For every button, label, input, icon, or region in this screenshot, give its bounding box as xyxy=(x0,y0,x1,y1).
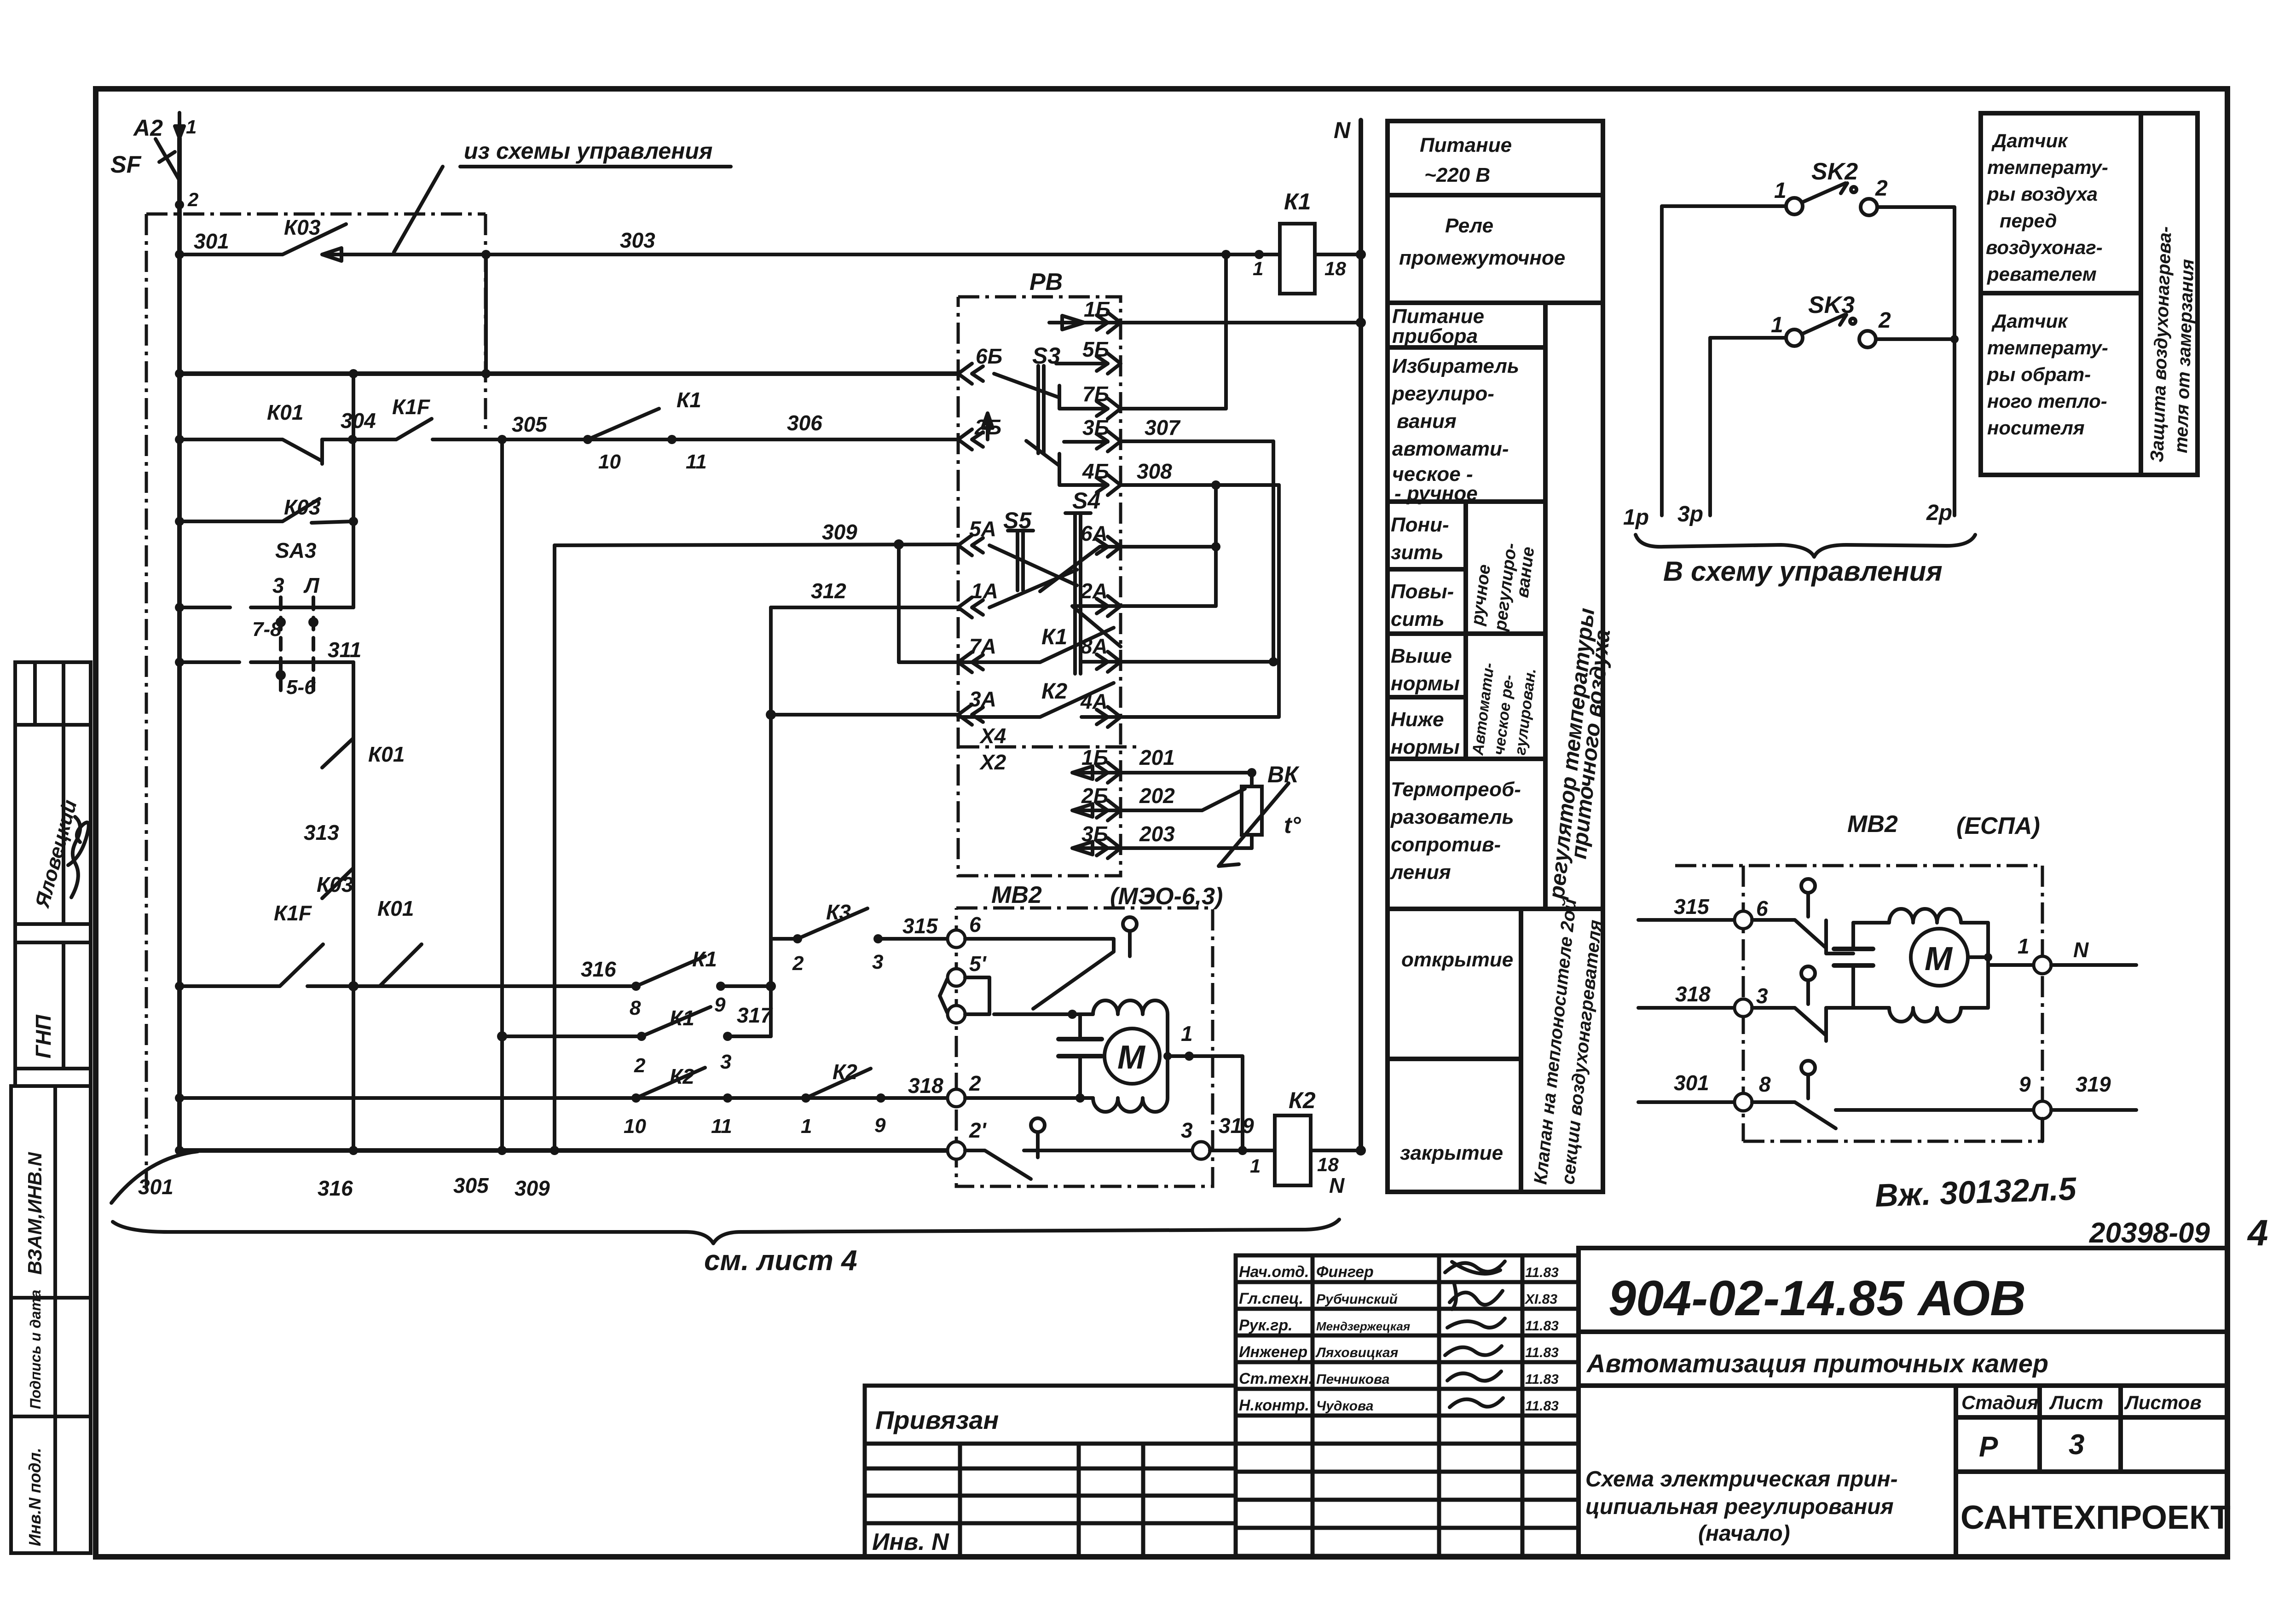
svg-text:11.83: 11.83 xyxy=(1525,1345,1559,1360)
svg-text:М: М xyxy=(1925,941,1953,977)
svg-text:САНТЕХПРОЕКТ: САНТЕХПРОЕКТ xyxy=(1960,1499,2231,1536)
svg-text:1р: 1р xyxy=(1623,505,1649,530)
svg-text:SK2: SK2 xyxy=(1811,158,1858,185)
svg-text:Х2: Х2 xyxy=(979,750,1006,774)
svg-text:11.83: 11.83 xyxy=(1525,1399,1559,1414)
left inventory strip boxes xyxy=(11,662,91,1553)
svg-text:2Б: 2Б xyxy=(1081,784,1108,808)
svg-text:309: 309 xyxy=(822,520,857,544)
svg-text:Лист: Лист xyxy=(2049,1392,2103,1413)
svg-text:Датчик: Датчик xyxy=(1991,310,2068,332)
svg-text:3: 3 xyxy=(272,573,284,597)
svg-text:сить: сить xyxy=(1391,608,1445,630)
svg-text:К3: К3 xyxy=(826,900,851,924)
svg-text:ципиальная регулирования: ципиальная регулирования xyxy=(1585,1495,1894,1519)
main vertical bus V1 xyxy=(177,138,182,1150)
title block outer xyxy=(1579,1248,2227,1557)
svg-text:К2: К2 xyxy=(1289,1087,1316,1113)
RV controller dashed box xyxy=(958,297,1121,876)
svg-text:МВ2: МВ2 xyxy=(991,882,1042,908)
svg-text:S4: S4 xyxy=(1072,488,1100,514)
svg-text:6Б: 6Б xyxy=(976,344,1002,368)
svg-text:3: 3 xyxy=(2069,1429,2084,1461)
svg-text:305: 305 xyxy=(453,1173,489,1197)
5' loop xyxy=(940,977,989,1014)
svg-text:10: 10 xyxy=(598,451,621,473)
svg-text:9: 9 xyxy=(714,994,726,1016)
svg-text:6: 6 xyxy=(1756,896,1768,920)
svg-text:Питание: Питание xyxy=(1420,134,1512,156)
svg-text:2: 2 xyxy=(969,1071,981,1095)
svg-text:нормы: нормы xyxy=(1391,672,1460,695)
svg-text:регулиро-: регулиро- xyxy=(1392,382,1494,405)
svg-text:203: 203 xyxy=(1139,822,1175,846)
terminal rows 201/202/203 xyxy=(1072,766,1252,779)
svg-text:Нач.отд.: Нач.отд. xyxy=(1239,1263,1309,1281)
chain x768: K03 contact wire y1133 xyxy=(352,374,355,607)
svg-text:температу-: температу- xyxy=(1987,337,2108,358)
svg-text:3Б: 3Б xyxy=(1081,822,1108,846)
svg-text:315: 315 xyxy=(1674,895,1710,919)
svg-text:313: 313 xyxy=(304,821,339,844)
svg-text:Чудкова: Чудкова xyxy=(1316,1399,1373,1414)
svg-text:315: 315 xyxy=(902,914,938,938)
svg-text:201: 201 xyxy=(1139,746,1175,769)
svg-text:Л: Л xyxy=(303,573,320,597)
svg-text:307: 307 xyxy=(1145,416,1181,439)
bottom bus 301 (y2500) xyxy=(111,1151,198,1203)
svg-text:1: 1 xyxy=(1253,258,1263,279)
svg-text:Вж. 30132л.5: Вж. 30132л.5 xyxy=(1874,1171,2077,1214)
svg-text:SF: SF xyxy=(110,151,142,178)
top contact from 6 xyxy=(965,939,1114,1009)
svg-text:ВК: ВК xyxy=(1267,762,1300,787)
svg-text:N: N xyxy=(1329,1173,1345,1197)
svg-text:304: 304 xyxy=(341,409,376,433)
svg-text:В схему управления: В схему управления xyxy=(1663,556,1943,587)
svg-text:316: 316 xyxy=(318,1176,353,1200)
svg-text:301: 301 xyxy=(138,1175,173,1199)
svg-text:301: 301 xyxy=(1674,1071,1709,1095)
svg-text:t°: t° xyxy=(1284,812,1301,838)
capacitor xyxy=(1851,923,1855,1008)
svg-text:ры обрат-: ры обрат- xyxy=(1987,364,2091,385)
svg-text:Схема электрическая прин-: Схема электрическая прин- xyxy=(1585,1467,1898,1491)
SA3 selector rows xyxy=(175,603,184,612)
svg-text:ВЗАМ,ИНВ.N: ВЗАМ,ИНВ.N xyxy=(24,1151,46,1275)
wire 318 (y2386) xyxy=(175,1093,184,1103)
svg-text:3: 3 xyxy=(872,951,883,973)
dash-dot boundary V2 xyxy=(146,214,486,1190)
BK thermal resistor xyxy=(1247,768,1256,777)
svg-text:20398-09: 20398-09 xyxy=(2089,1217,2210,1249)
svg-text:319: 319 xyxy=(2076,1072,2111,1096)
svg-text:301: 301 xyxy=(194,229,229,253)
svg-text:Датчик: Датчик xyxy=(1991,130,2068,151)
svg-text:Гл.спец.: Гл.спец. xyxy=(1239,1290,1303,1307)
svg-text:7Б: 7Б xyxy=(1082,382,1109,406)
bus H3 (y955) 304/305/306 xyxy=(175,435,184,444)
middle legend table xyxy=(1388,121,1603,1192)
svg-text:2: 2 xyxy=(634,1054,646,1077)
wire 312 / vertical 1675 xyxy=(771,606,958,609)
svg-text:Ст.техн.: Ст.техн. xyxy=(1239,1370,1313,1387)
svg-text:4Б: 4Б xyxy=(1082,459,1109,483)
svg-text:Печникова: Печникова xyxy=(1316,1372,1389,1387)
svg-text:8: 8 xyxy=(630,997,641,1019)
svg-text:1: 1 xyxy=(186,116,197,138)
wire 317 (y2252) xyxy=(497,1031,507,1041)
privyazan box xyxy=(865,1386,1236,1557)
svg-text:Ниже: Ниже xyxy=(1391,708,1444,731)
wire 315 with K3 xyxy=(771,937,798,941)
svg-text:(ЕСПА): (ЕСПА) xyxy=(1956,813,2040,839)
svg-text:308: 308 xyxy=(1137,459,1172,483)
svg-text:К01: К01 xyxy=(368,742,405,766)
svg-text:(МЭО-6,3): (МЭО-6,3) xyxy=(1110,883,1223,910)
svg-text:309: 309 xyxy=(515,1176,550,1200)
svg-text:МВ2: МВ2 xyxy=(1847,811,1898,838)
wire 301 (y553) with K03 contact xyxy=(175,250,184,259)
svg-text:N: N xyxy=(2073,938,2089,962)
svg-text:2': 2' xyxy=(969,1118,987,1142)
svg-text:Инв. N: Инв. N xyxy=(872,1529,949,1555)
terminal 3 and K2 relay xyxy=(1192,1142,1210,1159)
svg-text:Повы-: Повы- xyxy=(1391,580,1454,603)
svg-text:из схемы управления: из схемы управления xyxy=(464,138,712,164)
svg-text:2А: 2А xyxy=(1080,579,1108,603)
svg-text:11: 11 xyxy=(686,451,707,473)
7A wire from 1953 xyxy=(899,660,958,664)
svg-text:6А: 6А xyxy=(1081,521,1108,545)
svg-text:К01: К01 xyxy=(267,400,303,424)
svg-text:8: 8 xyxy=(1759,1072,1771,1096)
svg-text:К1: К1 xyxy=(692,947,717,971)
svg-text:К2: К2 xyxy=(1041,679,1068,704)
svg-text:3: 3 xyxy=(720,1051,731,1073)
svg-text:11.83: 11.83 xyxy=(1525,1372,1559,1387)
svg-text:ного тепло-: ного тепло- xyxy=(1987,390,2107,412)
svg-text:303: 303 xyxy=(620,228,655,252)
3A wire xyxy=(766,710,776,720)
svg-text:11.83: 11.83 xyxy=(1525,1318,1559,1334)
svg-text:Привязан: Привязан xyxy=(875,1405,999,1434)
svg-text:18: 18 xyxy=(1317,1154,1339,1175)
svg-text:перед: перед xyxy=(2000,210,2057,231)
svg-text:7-8: 7-8 xyxy=(252,618,282,641)
svg-text:5Б: 5Б xyxy=(1082,337,1109,361)
chain x768 down with K01, 313, K03 xyxy=(352,662,355,1150)
svg-text:Мендзержецкая: Мендзержецкая xyxy=(1316,1319,1410,1333)
svg-text:4: 4 xyxy=(2247,1212,2268,1253)
svg-text:Фингер: Фингер xyxy=(1316,1263,1374,1281)
signatures table xyxy=(1236,1255,1579,1556)
svg-text:ры воздуха: ры воздуха xyxy=(1987,183,2098,205)
svg-text:РВ: РВ xyxy=(1029,269,1063,295)
left-edge inner chevrons xyxy=(972,366,983,722)
svg-text:К2: К2 xyxy=(833,1060,857,1084)
svg-text:открытие: открытие xyxy=(1401,948,1513,971)
svg-text:Питание: Питание xyxy=(1392,305,1484,328)
svg-text:К1: К1 xyxy=(677,388,701,412)
svg-text:ления: ления xyxy=(1390,861,1451,884)
svg-text:3: 3 xyxy=(1181,1118,1193,1142)
motor xyxy=(1105,1029,1160,1084)
svg-text:1: 1 xyxy=(2018,934,2030,958)
svg-text:К03: К03 xyxy=(317,873,353,896)
svg-text:Рубчинский: Рубчинский xyxy=(1316,1292,1398,1307)
up arrow near 2B xyxy=(983,413,993,439)
svg-text:319: 319 xyxy=(1219,1114,1254,1138)
svg-text:5-6: 5-6 xyxy=(286,676,316,699)
svg-text:Н.контр.: Н.контр. xyxy=(1239,1397,1309,1414)
svg-text:2р: 2р xyxy=(1926,501,1952,525)
svg-text:1: 1 xyxy=(1181,1022,1193,1046)
svg-text:1: 1 xyxy=(1771,313,1783,337)
svg-text:прибора: прибора xyxy=(1392,325,1478,347)
svg-text:2: 2 xyxy=(1875,176,1888,201)
svg-text:М: М xyxy=(1117,1039,1146,1076)
svg-text:18: 18 xyxy=(1324,258,1346,279)
right-edge connector arrows xyxy=(1108,312,1121,858)
svg-text:9: 9 xyxy=(874,1114,886,1137)
svg-text:промежуточное: промежуточное xyxy=(1399,247,1565,269)
svg-text:3Б: 3Б xyxy=(1082,416,1109,439)
svg-text:305: 305 xyxy=(512,412,548,436)
svg-text:1: 1 xyxy=(1774,179,1787,203)
svg-text:Реле: Реле xyxy=(1445,214,1493,237)
svg-text:Ляховицкая: Ляховицкая xyxy=(1315,1345,1399,1360)
sensor legend box top-right xyxy=(1981,113,2197,475)
terminals xyxy=(948,930,965,948)
svg-text:закрытие: закрытие xyxy=(1400,1142,1503,1164)
svg-text:202: 202 xyxy=(1139,784,1175,808)
svg-text:311: 311 xyxy=(328,638,361,662)
svg-text:11: 11 xyxy=(711,1115,732,1138)
bottom 2' contact xyxy=(965,1150,1031,1179)
svg-text:К03: К03 xyxy=(284,215,321,239)
svg-text:нормы: нормы xyxy=(1391,736,1460,758)
svg-text:2: 2 xyxy=(1878,308,1891,333)
svg-text:воздухонаг-: воздухонаг- xyxy=(1986,237,2103,258)
svg-text:3: 3 xyxy=(1756,984,1768,1008)
svg-text:зить: зить xyxy=(1391,541,1444,564)
svg-text:Избиратель: Избиратель xyxy=(1392,355,1519,377)
bus H2 (y822) xyxy=(175,369,184,378)
svg-text:318: 318 xyxy=(1675,982,1711,1006)
svg-text:904-02-14.85 АОВ: 904-02-14.85 АОВ xyxy=(1608,1270,2026,1326)
svg-text:К01: К01 xyxy=(377,896,414,920)
svg-text:А2: А2 xyxy=(133,115,163,141)
svg-text:6: 6 xyxy=(969,913,981,936)
svg-text:XI.83: XI.83 xyxy=(1524,1292,1557,1307)
svg-text:5': 5' xyxy=(969,952,987,976)
signature squiggle xyxy=(68,817,89,897)
svg-text:Пони-: Пони- xyxy=(1391,514,1449,536)
svg-text:Автоматизация приточных каме: Автоматизация приточных камер xyxy=(1586,1349,2048,1378)
svg-text:Листов: Листов xyxy=(2124,1392,2202,1413)
svg-text:Выше: Выше xyxy=(1391,645,1452,667)
svg-text:К1: К1 xyxy=(1284,189,1311,214)
svg-text:К1: К1 xyxy=(1041,625,1067,649)
svg-text:Подпись и дата: Подпись и дата xyxy=(27,1290,44,1409)
svg-text:(начало): (начало) xyxy=(1698,1521,1790,1546)
svg-text:3р: 3р xyxy=(1677,502,1703,526)
capacitor xyxy=(1078,1014,1082,1098)
svg-text:312: 312 xyxy=(811,579,846,603)
svg-text:ГНП: ГНП xyxy=(31,1015,55,1058)
svg-text:10: 10 xyxy=(624,1115,646,1138)
svg-text:Инженер: Инженер xyxy=(1239,1343,1307,1361)
svg-text:автомати-: автомати- xyxy=(1392,438,1509,460)
wire 316 (y2143) xyxy=(175,982,184,991)
svg-text:306: 306 xyxy=(787,411,822,435)
svg-text:2: 2 xyxy=(792,952,804,975)
svg-text:318: 318 xyxy=(908,1074,943,1098)
svg-text:Х4: Х4 xyxy=(979,724,1006,748)
svg-text:ревателем: ревателем xyxy=(1987,263,2097,285)
svg-text:Рук.гр.: Рук.гр. xyxy=(1239,1317,1293,1334)
svg-text:Стадия: Стадия xyxy=(1961,1392,2038,1413)
svg-text:~220 В: ~220 В xyxy=(1424,164,1490,186)
svg-text:1: 1 xyxy=(801,1115,812,1138)
svg-text:9: 9 xyxy=(2019,1072,2031,1096)
svg-text:316: 316 xyxy=(581,957,616,981)
svg-text:Р: Р xyxy=(1979,1431,1998,1463)
svg-text:носителя: носителя xyxy=(1987,417,2085,439)
motor with windings xyxy=(1911,929,1968,986)
svg-text:1Б: 1Б xyxy=(1084,297,1110,321)
svg-text:К1F: К1F xyxy=(392,395,431,419)
svg-text:см. лист 4: см. лист 4 xyxy=(704,1245,857,1277)
wire 309 xyxy=(555,544,958,545)
2 terminal wire xyxy=(965,1096,1080,1100)
svg-text:вания: вания xyxy=(1397,410,1457,433)
svg-text:К2: К2 xyxy=(670,1064,694,1088)
svg-text:К1F: К1F xyxy=(274,901,312,925)
svg-text:Инв.N подл.: Инв.N подл. xyxy=(25,1448,44,1546)
svg-text:317: 317 xyxy=(737,1003,773,1027)
verticals 305/309 xyxy=(500,439,504,1150)
svg-text:2: 2 xyxy=(187,189,198,210)
svg-text:11.83: 11.83 xyxy=(1525,1265,1559,1280)
svg-text:- ручное: - ручное xyxy=(1394,482,1478,505)
wires right of RV xyxy=(1049,316,1361,329)
svg-text:SА3: SА3 xyxy=(275,538,317,562)
left-edge connector arrows xyxy=(958,364,972,725)
svg-text:К03: К03 xyxy=(284,495,321,519)
svg-text:1Б: 1Б xyxy=(1081,746,1108,769)
svg-text:температу-: температу- xyxy=(1987,156,2108,178)
svg-text:Термопреоб-: Термопреоб- xyxy=(1391,778,1521,801)
svg-text:1: 1 xyxy=(1250,1155,1261,1177)
signature squiggles xyxy=(1445,1261,1505,1407)
svg-text:разователь: разователь xyxy=(1390,806,1514,828)
see sheet 4 brace xyxy=(113,1219,1339,1243)
svg-text:N: N xyxy=(1334,117,1351,143)
brace to control circuit xyxy=(1636,535,1975,557)
svg-text:сопротив-: сопротив- xyxy=(1391,833,1501,856)
